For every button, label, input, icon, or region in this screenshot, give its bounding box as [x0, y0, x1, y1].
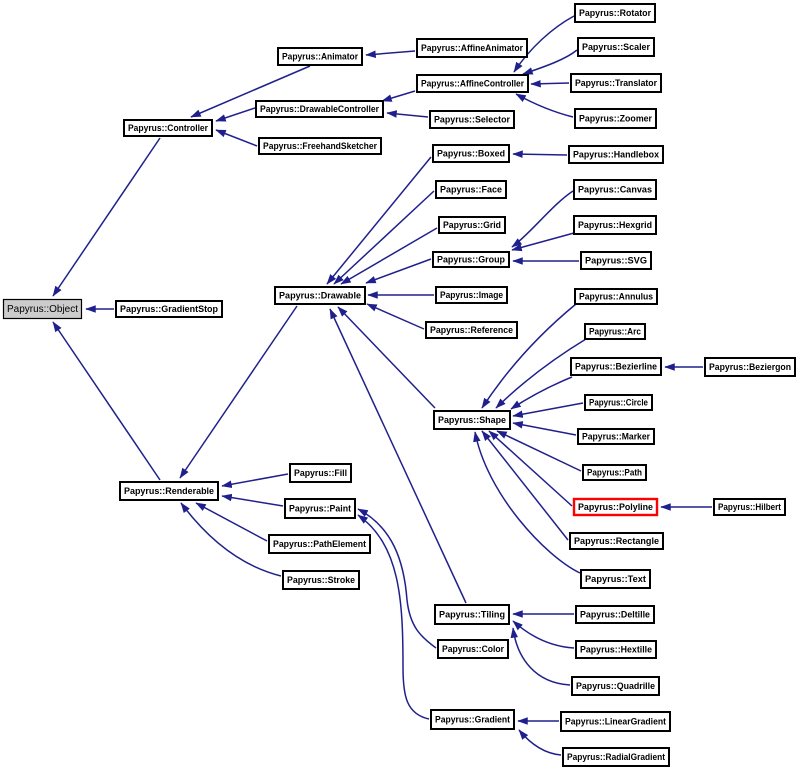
svg-text:Papyrus::Annulus: Papyrus::Annulus: [579, 292, 653, 302]
svg-text:Papyrus::Hexgrid: Papyrus::Hexgrid: [578, 220, 652, 230]
svg-text:Papyrus::Hilbert: Papyrus::Hilbert: [718, 502, 781, 512]
edge Path to Shape: [497, 431, 581, 471]
svg-text:Papyrus::Circle: Papyrus::Circle: [589, 398, 648, 408]
edge Deltille to Tiling: [513, 613, 574, 615]
edge Annulus to Shape: [482, 304, 576, 408]
class box Papyrus::Grid: [439, 217, 505, 233]
class box Papyrus::Annulus: [575, 289, 657, 304]
class box Papyrus::Path: [583, 465, 646, 480]
edge Hexgrid to Group: [512, 233, 574, 250]
edge Quadrille to Tiling: [513, 628, 570, 685]
svg-text:Papyrus::Drawable: Papyrus::Drawable: [279, 291, 361, 301]
svg-text:Papyrus::Fill: Papyrus::Fill: [294, 468, 347, 478]
svg-text:Papyrus::Reference: Papyrus::Reference: [430, 325, 513, 335]
svg-text:Papyrus::GradientStop: Papyrus::GradientStop: [120, 304, 218, 314]
class box Papyrus::Stroke: [283, 571, 359, 589]
svg-text:Papyrus::AffineAnimator: Papyrus::AffineAnimator: [421, 43, 523, 53]
svg-text:Papyrus::Deltille: Papyrus::Deltille: [580, 610, 650, 620]
class box Papyrus::GradientStop: [116, 301, 222, 317]
edge Stroke to Renderable: [181, 503, 281, 576]
class box Papyrus::SVG: [581, 252, 651, 269]
class box Papyrus::Image: [436, 287, 507, 303]
class box Papyrus::Beziergon: [705, 358, 795, 376]
edge Grid to Drawable: [341, 228, 437, 284]
class box Papyrus::Hilbert: [714, 499, 785, 515]
class box Papyrus::Polyline (highlighted): [574, 499, 657, 515]
edge Canvas to Group: [512, 191, 573, 247]
edge Scaler to AffineController: [523, 50, 577, 74]
edge Beziergon to Bezierline: [665, 366, 703, 368]
edge Translator to AffineController: [531, 83, 569, 84]
edge GradientStop to Object: [86, 308, 114, 310]
svg-text:Papyrus::Canvas: Papyrus::Canvas: [578, 185, 652, 195]
edge Gradient to Paint: [358, 515, 429, 719]
svg-text:Papyrus::Renderable: Papyrus::Renderable: [124, 486, 214, 496]
edge Hextille to Tiling: [513, 621, 574, 648]
edge Face to Drawable: [334, 191, 434, 284]
edge AffineAnimator to Animator: [366, 51, 415, 55]
edge LinearGradient to Gradient: [518, 720, 559, 722]
class box Papyrus::Bezierline: [571, 358, 661, 375]
edge Renderable to Object: [53, 322, 160, 480]
edge PathElement to Renderable: [196, 503, 267, 541]
svg-text:Papyrus::Text: Papyrus::Text: [585, 574, 646, 584]
svg-text:Papyrus::LinearGradient: Papyrus::LinearGradient: [565, 717, 666, 727]
class box Papyrus::Hextille: [576, 641, 656, 658]
svg-text:Papyrus::AffineController: Papyrus::AffineController: [421, 79, 524, 89]
edge Bezierline to Shape: [511, 377, 572, 409]
edge Reference to Drawable: [367, 304, 424, 329]
class box Papyrus::Circle: [585, 395, 652, 410]
class box Papyrus::Drawable: [275, 287, 365, 304]
edge Fill to Renderable: [222, 474, 288, 486]
class box Papyrus::Quadrille: [572, 677, 659, 695]
edge Drawable to Renderable: [180, 306, 297, 478]
svg-text:Papyrus::Group: Papyrus::Group: [437, 255, 505, 265]
edge Color to Paint: [358, 509, 436, 648]
edge Controller to Object: [53, 138, 160, 296]
svg-text:Papyrus::Bezierline: Papyrus::Bezierline: [575, 362, 657, 372]
class box Papyrus::Zoomer: [575, 109, 656, 128]
class box Papyrus::Tiling: [435, 605, 509, 624]
class box Papyrus::Reference: [426, 322, 517, 338]
svg-text:Papyrus::Scaler: Papyrus::Scaler: [582, 42, 650, 52]
class box Papyrus::Object (current): [4, 300, 82, 319]
edge Paint to Renderable: [222, 496, 283, 506]
class box Papyrus::Controller: [124, 120, 212, 136]
svg-text:Papyrus::Image: Papyrus::Image: [440, 290, 503, 300]
edge SVG to Group: [513, 260, 579, 262]
class box Papyrus::Group: [433, 252, 509, 267]
svg-text:Papyrus::Zoomer: Papyrus::Zoomer: [579, 114, 652, 124]
svg-text:Papyrus::RadialGradient: Papyrus::RadialGradient: [567, 752, 665, 762]
class box Papyrus::AffineAnimator: [417, 39, 527, 57]
class box Papyrus::Handlebox: [569, 146, 663, 163]
svg-text:Papyrus::PathElement: Papyrus::PathElement: [273, 539, 366, 549]
svg-text:Papyrus::Grid: Papyrus::Grid: [443, 220, 501, 230]
svg-text:Papyrus::Shape: Papyrus::Shape: [438, 415, 506, 425]
svg-text:Papyrus::Stroke: Papyrus::Stroke: [287, 575, 355, 585]
svg-text:Papyrus::Object: Papyrus::Object: [7, 303, 78, 315]
edge RadialGradient to Gradient: [519, 730, 561, 755]
class box Papyrus::Boxed: [433, 145, 509, 162]
edge DrawableController to Controller: [216, 108, 255, 121]
svg-text:Papyrus::Arc: Papyrus::Arc: [589, 327, 641, 337]
class box Papyrus::Selector: [430, 111, 514, 128]
svg-text:Papyrus::Animator: Papyrus::Animator: [282, 52, 358, 62]
edge Shape to Drawable: [338, 307, 435, 408]
class box Papyrus::Canvas: [574, 180, 656, 199]
class box Papyrus::Scaler: [578, 38, 654, 56]
svg-text:Papyrus::Selector: Papyrus::Selector: [434, 115, 510, 125]
svg-text:Papyrus::Path: Papyrus::Path: [587, 468, 642, 478]
class box Papyrus::Face: [436, 181, 506, 198]
edge Boxed to Drawable: [327, 157, 431, 284]
class box Papyrus::Renderable: [120, 482, 218, 500]
class box Papyrus::Rotator: [575, 4, 655, 22]
class box Papyrus::Hexgrid: [574, 216, 656, 234]
edge AffineController to DrawableController: [382, 91, 415, 101]
svg-text:Papyrus::Handlebox: Papyrus::Handlebox: [573, 150, 660, 160]
class box Papyrus::Paint: [285, 499, 355, 518]
edge Handlebox to Boxed: [513, 154, 567, 155]
svg-text:Papyrus::Gradient: Papyrus::Gradient: [435, 715, 510, 725]
class box Papyrus::Marker: [578, 429, 654, 444]
class box Papyrus::Translator: [571, 74, 661, 92]
edge Zoomer to AffineController: [516, 94, 573, 117]
svg-text:Papyrus::Marker: Papyrus::Marker: [582, 432, 650, 442]
edge Rotator to AffineController: [514, 16, 574, 72]
svg-text:Papyrus::Quadrille: Papyrus::Quadrille: [576, 681, 655, 691]
edge Animator to Controller: [191, 66, 310, 117]
class box Papyrus::FreehandSketcher: [259, 138, 381, 154]
edge Hilbert to Polyline: [661, 506, 712, 508]
edge Selector to DrawableController: [387, 113, 428, 117]
svg-text:Papyrus::Rectangle: Papyrus::Rectangle: [574, 536, 659, 546]
svg-text:Papyrus::Translator: Papyrus::Translator: [575, 78, 657, 88]
class box Papyrus::AffineController: [417, 75, 528, 92]
class box Papyrus::Fill: [290, 464, 351, 482]
class box Papyrus::Arc: [585, 324, 645, 339]
svg-text:Papyrus::Controller: Papyrus::Controller: [128, 123, 208, 133]
edge Group to Drawable: [366, 259, 431, 283]
edge Rectangle to Shape: [482, 431, 568, 540]
class box Papyrus::LinearGradient: [561, 712, 670, 731]
svg-text:Papyrus::Paint: Papyrus::Paint: [289, 504, 351, 514]
class box Papyrus::PathElement: [269, 535, 370, 553]
class box Papyrus::Rectangle: [570, 533, 663, 549]
class box Papyrus::Text: [581, 570, 650, 588]
svg-text:Papyrus::Rotator: Papyrus::Rotator: [579, 8, 651, 18]
class box Papyrus::Shape: [434, 411, 510, 429]
svg-text:Papyrus::Beziergon: Papyrus::Beziergon: [709, 362, 791, 372]
class box Papyrus::Deltille: [576, 606, 654, 623]
edge Polyline to Shape: [489, 431, 572, 506]
svg-text:Papyrus::Color: Papyrus::Color: [442, 644, 504, 654]
svg-text:Papyrus::Face: Papyrus::Face: [440, 185, 502, 195]
edge Tiling to Drawable: [330, 309, 466, 603]
class box Papyrus::DrawableController: [256, 101, 383, 117]
edge Text to Shape: [475, 432, 580, 573]
svg-text:Papyrus::SVG: Papyrus::SVG: [585, 256, 647, 266]
edge Circle to Shape: [513, 403, 583, 416]
svg-text:Papyrus::Boxed: Papyrus::Boxed: [437, 149, 505, 159]
class box Papyrus::Gradient: [431, 710, 514, 729]
edge Image to Drawable: [368, 294, 434, 296]
class box Papyrus::Animator: [278, 48, 362, 65]
class box Papyrus::RadialGradient: [563, 748, 669, 766]
svg-text:Papyrus::Tiling: Papyrus::Tiling: [439, 610, 505, 620]
class box Papyrus::Color: [438, 640, 508, 658]
svg-text:Papyrus::DrawableController: Papyrus::DrawableController: [260, 104, 379, 114]
svg-text:Papyrus::FreehandSketcher: Papyrus::FreehandSketcher: [263, 141, 377, 151]
edge Marker to Shape: [513, 423, 576, 435]
edge Arc to Shape: [496, 339, 586, 408]
svg-text:Papyrus::Hextille: Papyrus::Hextille: [580, 645, 652, 655]
svg-text:Papyrus::Polyline: Papyrus::Polyline: [578, 502, 653, 512]
edge FreehandSketcher to Controller: [216, 130, 257, 146]
